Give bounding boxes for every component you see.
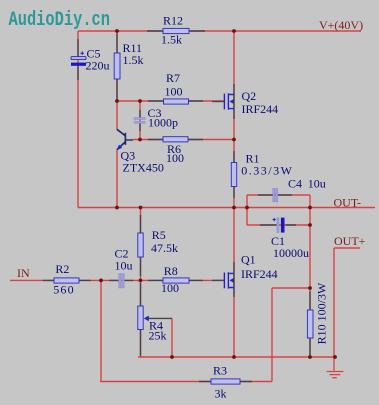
R6 pins (148, 139, 203, 141)
wire feedback column x=272 (271, 288, 273, 382)
resistor R3 body (211, 379, 240, 384)
wire R10 top row (272, 287, 310, 289)
junction Q3 emitter on mid rail (115, 206, 119, 210)
capacitor C3 plates (134, 118, 145, 120)
R10 pins (309, 292, 311, 356)
wire top rail V+ (78, 30, 361, 32)
svg-text:R10 100/3W: R10 100/3W (315, 282, 329, 344)
svg-text:V+(40V): V+(40V) (319, 18, 363, 32)
svg-text:R5: R5 (152, 228, 166, 242)
R4 wiper horizontal (147, 317, 172, 319)
svg-text:100: 100 (161, 281, 179, 295)
resistor R1 body (231, 163, 236, 187)
wire R5 R4 column (140, 208, 142, 358)
resistor R2 body (54, 278, 79, 283)
svg-text:IRF244: IRF244 (242, 102, 279, 116)
junction R4 wiper on ground bus (170, 355, 174, 359)
svg-text:47.5k: 47.5k (151, 241, 178, 255)
wire IN row (10, 279, 224, 281)
svg-text:10000u: 10000u (273, 246, 309, 260)
svg-text:AudioDiy.cn: AudioDiy.cn (9, 9, 111, 32)
C5 pins (77, 39, 79, 80)
junction IN node (99, 279, 103, 283)
wire R3 row (100, 381, 272, 383)
wire C1 branch (247, 224, 310, 226)
resistor R12 body (163, 28, 189, 33)
C1 pins (260, 224, 296, 226)
junction C4/C1 block right on OUT- rail (308, 206, 312, 210)
wire R11 column (116, 31, 118, 101)
wire R6 row (133, 139, 234, 141)
svg-text:3k: 3k (215, 387, 227, 401)
svg-text:Q1: Q1 (241, 253, 256, 267)
C5 plus sign (80, 51, 84, 55)
resistor R5 body (138, 233, 143, 257)
wire Q3 emitter column (116, 150, 118, 208)
capacitor C2 plates (119, 274, 121, 288)
svg-text:220u: 220u (86, 59, 110, 73)
capacitor C5 bottom plate (71, 63, 86, 66)
wire C3 column (139, 101, 141, 140)
wire Q2 R1 Q1 column (233, 31, 235, 357)
R2 pins (43, 279, 91, 281)
wire R4 wiper vertical (171, 318, 173, 357)
wire ground bus y=357 (138, 356, 335, 358)
component pins (dark) (43, 31, 310, 382)
svg-text:R3: R3 (213, 364, 227, 378)
svg-text:Q2: Q2 (242, 89, 257, 103)
transistor Q1 (MOSFET IRF244) (224, 272, 234, 288)
resistor R8 body (163, 278, 189, 283)
wire IN shunt column (100, 280, 102, 381)
wire Q3 collector column (116, 101, 118, 130)
Q1 gate pin (212, 279, 224, 281)
junction C2 / R5 / R8 / R4 node (139, 279, 143, 283)
resistor R11 body (114, 53, 120, 79)
svg-text:1.5k: 1.5k (161, 33, 182, 47)
svg-text:R12: R12 (163, 14, 183, 28)
resistor R10 body (307, 310, 313, 338)
svg-text:IRF244: IRF244 (241, 267, 278, 281)
R4 pins (140, 283, 142, 356)
Q1 drain and source pins (233, 262, 235, 297)
R1 pins (233, 151, 235, 198)
wire right column x=310 (309, 195, 311, 357)
svg-text:R8: R8 (164, 264, 178, 278)
R11 pins (116, 34, 118, 100)
R12 pins (147, 30, 205, 32)
junction R10 top node (308, 286, 312, 290)
svg-text:100: 100 (165, 85, 183, 99)
svg-text:1.5k: 1.5k (123, 53, 144, 67)
C2 pins (109, 279, 133, 281)
junction R1 bottom / Q1 drain on mid rail (232, 206, 236, 210)
capacitor C1 thick plate (281, 218, 285, 233)
ground (327, 357, 344, 378)
op-amp none / transistor Q2 (MOSFET IRF244) (224, 93, 234, 109)
junction OUT+ / ground node (333, 355, 337, 359)
svg-text:OUT+: OUT+ (334, 234, 366, 248)
svg-text:10u: 10u (115, 259, 133, 273)
svg-text:560: 560 (53, 283, 75, 297)
junction C3 bottom on Q3 base row (138, 138, 142, 142)
C1 plus sign (273, 218, 276, 221)
R7 pins (148, 100, 203, 102)
junction R11 bottom / Q3 collector (115, 99, 119, 103)
C3 pins (139, 110, 141, 131)
resistor R7 body (164, 99, 189, 104)
R5 pins (140, 215, 142, 276)
resistor R6 body (163, 137, 188, 142)
junction C3 top on R7 row (138, 99, 142, 103)
wire C4 branch (247, 194, 310, 196)
svg-text:OUT-: OUT- (334, 196, 362, 210)
wire OUT+ line (334, 247, 360, 249)
capacitor C1 thin plate (277, 218, 279, 233)
svg-text:1000p: 1000p (148, 116, 178, 130)
svg-text:IN: IN (17, 266, 30, 280)
transistor Q3 (ZTX450 NPN) (117, 129, 126, 150)
junction C1 right on output column (308, 223, 312, 227)
wire R7 row (117, 100, 224, 102)
resistor R4 body (pot) (138, 306, 143, 330)
svg-text:C4: C4 (288, 177, 302, 191)
Q2 gate pin (212, 101, 224, 103)
junction Q1 source on ground bus (232, 355, 236, 359)
junction R10 bottom on ground bus (308, 355, 312, 359)
svg-text:100: 100 (166, 151, 184, 165)
Q2 drain and source pins (233, 84, 235, 119)
capacitor C4 plates (273, 188, 275, 202)
R4 wiper arrow (144, 316, 149, 322)
R3 pins (199, 381, 252, 383)
svg-text:0.33/3W: 0.33/3W (241, 164, 293, 178)
C4 pins (258, 194, 292, 196)
svg-text:25k: 25k (149, 329, 167, 343)
junction Q2 drain on V+ rail (232, 29, 236, 33)
junction R5 top on mid rail (139, 206, 143, 210)
junction R6 right / Q2 source / R1 top (232, 138, 236, 142)
svg-text:ZTX450: ZTX450 (123, 161, 164, 175)
capacitor C5 top plate (71, 57, 86, 60)
wire left rail (77, 31, 79, 208)
wire C4/C1 block left side (246, 195, 248, 225)
wire middle rail y=207.5 (78, 207, 375, 209)
svg-text:10u: 10u (308, 177, 326, 191)
svg-text:R2: R2 (55, 262, 69, 276)
R8 pins (148, 279, 203, 281)
wire OUT+ column (333, 248, 335, 357)
junction R11 top on V+ rail (115, 29, 119, 33)
junction C4/C1 block left on mid rail (245, 206, 249, 210)
svg-text:R7: R7 (166, 71, 180, 85)
